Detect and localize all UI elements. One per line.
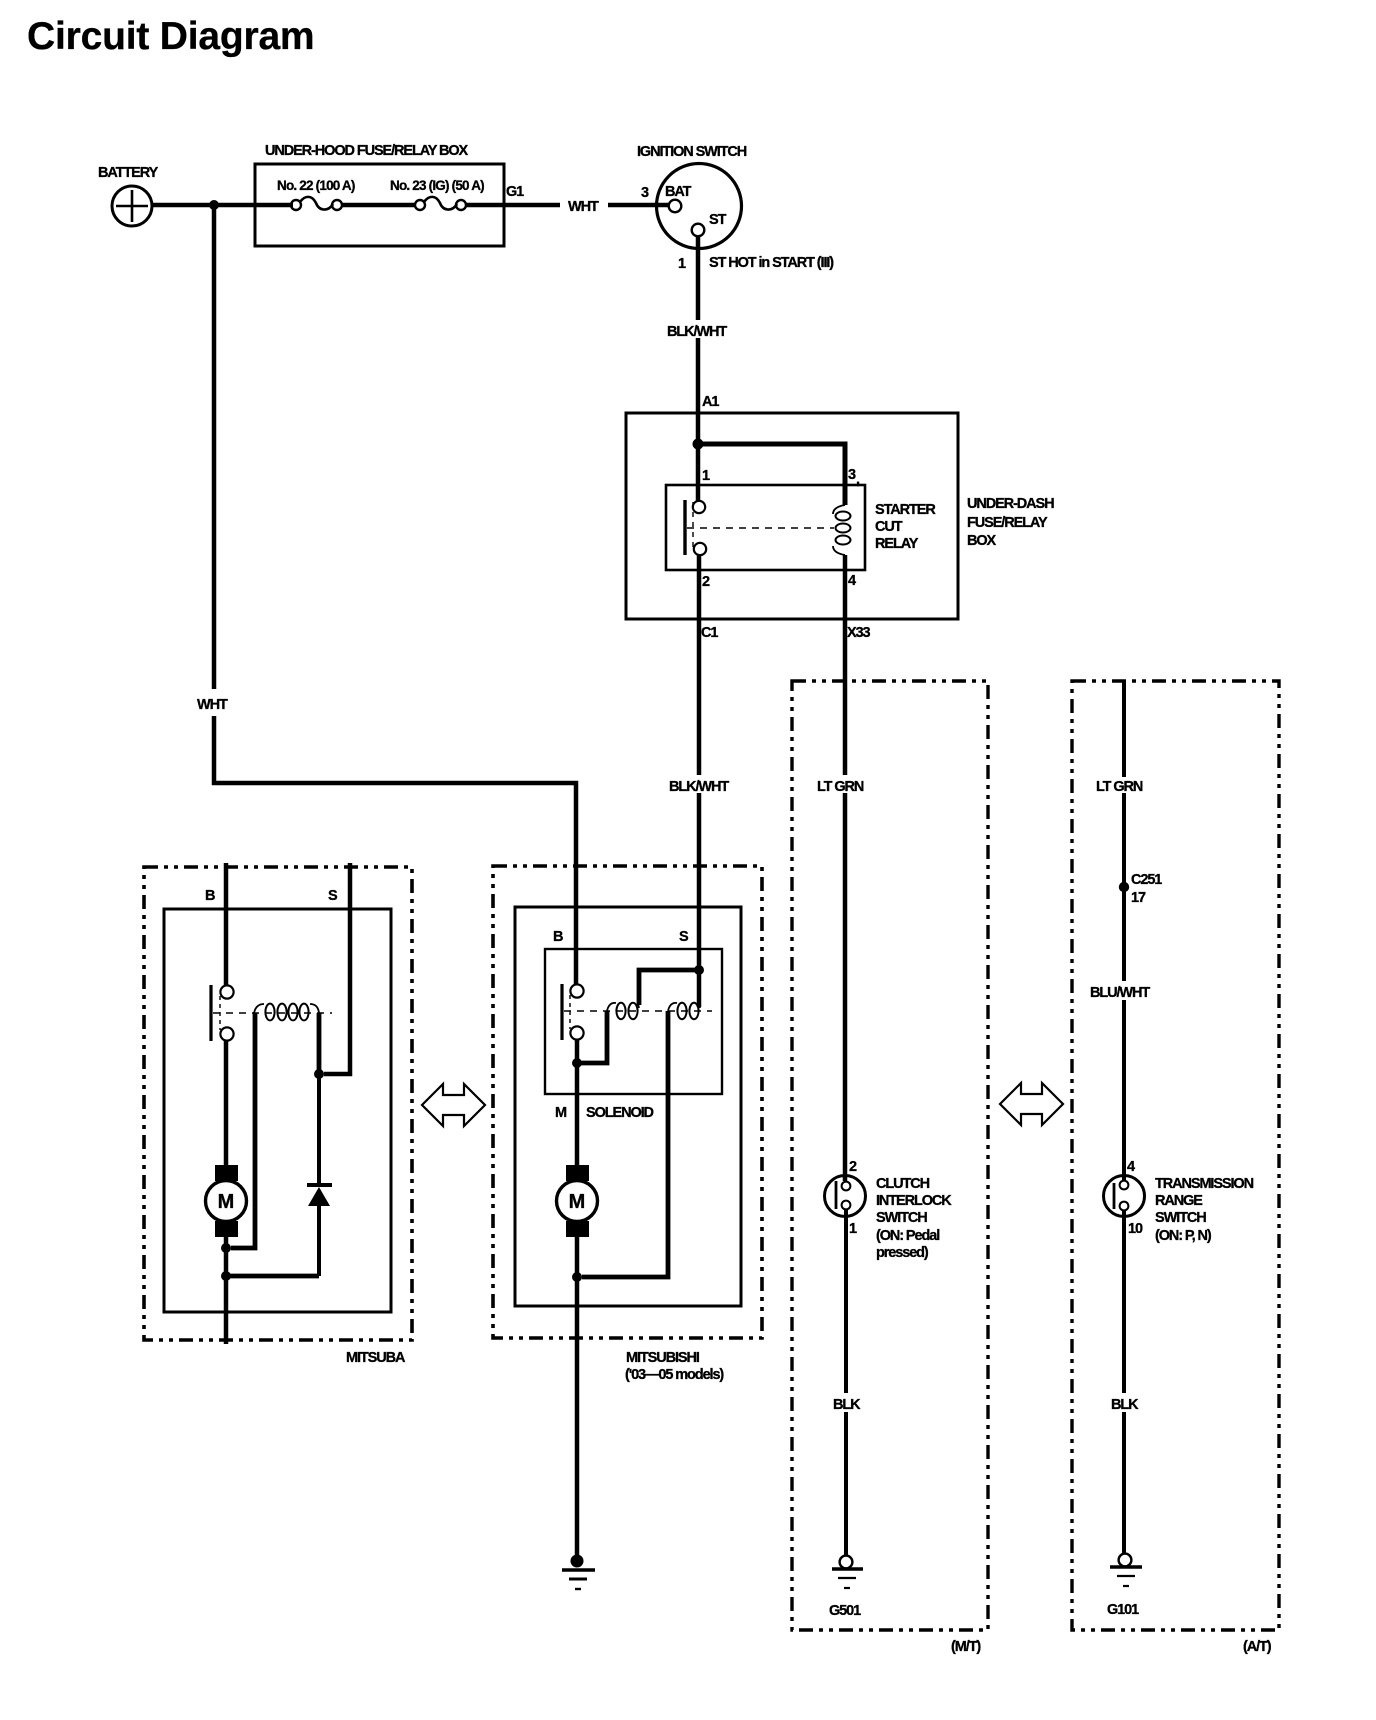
pin 3 BAT terminal [669,200,682,213]
Mitsubishi starter outer dashed box [493,866,762,1338]
svg-text:RANGE: RANGE [1155,1193,1203,1209]
svg-text:(M/T): (M/T) [951,1639,981,1655]
svg-text:1: 1 [702,468,710,484]
wire battery to fuse box [152,203,293,208]
svg-text:(A/T): (A/T) [1243,1639,1272,1655]
svg-text:17: 17 [1131,890,1146,906]
svg-text:IGNITION SWITCH: IGNITION SWITCH [637,144,747,160]
wire WHT to ignition switch [466,203,560,208]
hold-in coil (Mitsubishi) [668,1003,700,1019]
ground G501 [829,1556,863,1619]
wire motor to ground [575,1237,580,1557]
svg-text:B: B [553,929,563,945]
motor M (Mitsubishi) [557,1165,598,1237]
motor M (Mitsuba) [206,1165,247,1237]
ground G101 [1107,1554,1142,1618]
under-dash fuse/relay box [626,413,1054,619]
wire BLK to ground (A/T) [1122,1210,1126,1393]
pull-in coil (Mitsubishi) [607,1003,639,1019]
pin 1 contact [693,501,705,513]
wire LT GRN from relay pin4 to clutch interlock [843,555,848,775]
node junction A1 branch [693,439,704,450]
svg-text:INTERLOCK: INTERLOCK [876,1193,952,1209]
wire LT GRN (A/T) [1122,681,1126,777]
wire between fuses [342,203,415,208]
svg-text:BAT: BAT [665,184,692,200]
clutch interlock switch [825,1159,953,1261]
relay actuation dashed line [692,502,694,552]
wire BLU/WHT label [1086,981,1156,1000]
wire B stub [224,863,229,986]
svg-text:BLK: BLK [833,1397,861,1413]
Mitsuba starter inner box [164,909,391,1312]
node motor/hold-in junction [572,1272,582,1282]
svg-text:3: 3 [848,467,856,483]
battery B1 [98,165,159,226]
fuse No.23 IG 50A [390,178,484,210]
node S junction (Mitsubishi) [694,965,704,975]
solenoid switch contacts (Mitsubishi) [560,984,563,1040]
node C251 pin 17 [1119,882,1129,892]
svg-text:WHT: WHT [197,697,228,713]
svg-text:SWITCH: SWITCH [876,1210,927,1226]
diode D1 [307,1074,332,1276]
wire B contact to motor (Mitsuba) [224,1040,229,1166]
wire B contact to motor (Mitsubishi) [575,1040,580,1166]
wire BLK/WHT from relay pin2 to solenoid S [697,555,702,775]
svg-text:UNDER-DASH: UNDER-DASH [967,496,1054,512]
svg-text:No. 23 (IG) (50 A): No. 23 (IG) (50 A) [390,178,484,193]
svg-text:1: 1 [849,1221,857,1237]
equivalence arrow 2 [1000,1083,1063,1125]
solenoid coil (Mitsuba) [254,1004,319,1021]
equivalence arrow 1 [422,1084,485,1126]
relay coil [833,505,845,514]
svg-text:ST HOT in START (III): ST HOT in START (III) [709,255,834,271]
svg-text:C1: C1 [701,625,718,641]
node coil/S junction [314,1069,324,1079]
svg-text:FUSE/RELAY: FUSE/RELAY [967,515,1048,531]
wire WHT vertical from battery junction [212,205,217,689]
svg-text:MITSUBISHI: MITSUBISHI [626,1350,700,1366]
svg-text:X33: X33 [847,625,871,641]
svg-text:RELAY: RELAY [875,536,919,552]
svg-text:CUT: CUT [875,519,903,535]
node B/coil junction [572,1058,582,1068]
svg-text:BOX: BOX [967,533,997,549]
node motor/diode junction [221,1271,231,1281]
svg-text:BLK/WHT: BLK/WHT [667,324,727,340]
wire coil left terminal down (Mitsuba) [231,1013,255,1248]
svg-text:4: 4 [848,573,856,589]
ground G (starter case) [562,1555,595,1590]
svg-text:LT GRN: LT GRN [1096,779,1143,795]
svg-text:BATTERY: BATTERY [98,165,159,181]
under-hood fuse/relay box [255,143,504,246]
svg-text:B: B [205,888,215,904]
wire S branch to pull-in coil [639,970,699,1005]
starter cut relay K1 [666,467,936,590]
A/T dashed box [1072,681,1279,1630]
fuse No.22 100A [277,178,355,210]
svg-text:CLUTCH: CLUTCH [876,1176,930,1192]
wire WHT horizontal run to Mitsubishi B [212,783,576,985]
svg-text:C251: C251 [1131,872,1162,888]
relay contact bar [683,500,686,555]
svg-text:2: 2 [702,574,710,590]
wire BLK/WHT from ST down [696,237,701,320]
wire BLK to ground (M/T) [844,1210,848,1393]
svg-text:No. 22 (100 A): No. 22 (100 A) [277,178,355,193]
svg-text:LT GRN: LT GRN [817,779,864,795]
svg-text:pressed): pressed) [876,1245,929,1261]
svg-text:ST: ST [709,212,727,228]
wire coil right terminal (Mitsuba) [317,1013,322,1074]
wire hold-in coil left down to motor bottom [582,1011,668,1277]
svg-text:(ON: Pedal: (ON: Pedal [876,1228,939,1244]
pin 1 ST terminal [692,224,705,237]
wire motor down (Mitsuba) [224,1237,229,1344]
svg-text:Circuit Diagram: Circuit Diagram [27,15,314,58]
svg-text:BLU/WHT: BLU/WHT [1090,985,1150,1001]
ignition switch SW1 [637,144,834,272]
M/T dashed box [792,681,988,1630]
svg-text:1: 1 [678,256,686,272]
svg-text:MITSUBA: MITSUBA [346,1350,406,1366]
svg-text:M: M [555,1105,567,1121]
svg-text:SWITCH: SWITCH [1155,1210,1206,1226]
wire S stub [324,863,350,1074]
svg-text:('03—05 models): ('03—05 models) [625,1367,724,1383]
svg-text:S: S [328,888,338,904]
solenoid box (Mitsubishi) [545,949,722,1094]
svg-text:UNDER-HOOD FUSE/RELAY BOX: UNDER-HOOD FUSE/RELAY BOX [265,143,469,159]
node motor/coil junction [221,1243,231,1253]
svg-text:BLK: BLK [1111,1397,1139,1413]
svg-text:4: 4 [1127,1159,1135,1175]
svg-text:10: 10 [1128,1221,1143,1237]
svg-text:BLK/WHT: BLK/WHT [669,779,729,795]
svg-text:M: M [218,1191,235,1213]
svg-text:G101: G101 [1107,1602,1139,1618]
svg-text:STARTER: STARTER [875,502,936,518]
Mitsuba starter outer dashed box [144,867,412,1340]
svg-text:S: S [679,929,689,945]
svg-text:TRANSMISSION: TRANSMISSION [1155,1176,1254,1192]
svg-text:(ON: P, N): (ON: P, N) [1155,1228,1212,1244]
svg-text:SOLENOID: SOLENOID [586,1105,654,1121]
svg-text:WHT: WHT [568,199,599,215]
wire pull-in coil left to B wire [581,1011,607,1063]
svg-text:3: 3 [641,185,649,201]
svg-text:2: 2 [849,1159,857,1175]
pin 2 contact [694,543,706,555]
wire diode to motor bottom [222,1274,319,1279]
transmission range switch [1104,1159,1254,1244]
wire to relay coil pin 3 [698,444,845,505]
Mitsubishi starter inner box [515,907,741,1306]
node junction battery bus [209,200,219,210]
svg-text:G1: G1 [506,184,524,200]
svg-text:G501: G501 [829,1603,861,1619]
svg-text:M: M [569,1191,586,1213]
solenoid switch contacts (Mitsuba) [209,985,212,1041]
svg-text:A1: A1 [702,394,719,410]
